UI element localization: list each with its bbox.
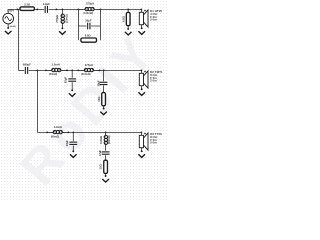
svg-text:(50mΩ): (50mΩ)	[49, 73, 57, 76]
svg-text:6.8mH: 6.8mH	[99, 136, 103, 144]
svg-text:(110mΩ): (110mΩ)	[83, 12, 93, 15]
svg-text:6.8Ω: 6.8Ω	[85, 33, 92, 37]
svg-text:2.2Ω: 2.2Ω	[24, 3, 31, 7]
svg-text:680µF: 680µF	[23, 63, 31, 67]
svg-text:(4mΩ): (4mΩ)	[10, 25, 16, 28]
svg-text:2 0m: 2 0m	[150, 79, 157, 83]
svg-text:39µF: 39µF	[85, 19, 92, 23]
svg-text:2.83V: 2.83V	[7, 8, 14, 12]
svg-text:(90mΩ): (90mΩ)	[51, 135, 59, 138]
svg-text:375µH: 375µH	[85, 63, 93, 67]
svg-text:2 0m: 2 0m	[150, 18, 157, 22]
svg-text:(60mΩ): (60mΩ)	[108, 135, 111, 144]
svg-text:3.9µF: 3.9µF	[43, 2, 50, 6]
svg-text:(33mΩ): (33mΩ)	[65, 14, 68, 23]
svg-text:82µF: 82µF	[63, 77, 67, 84]
svg-text:39µF: 39µF	[96, 80, 100, 87]
svg-text:1.2mH: 1.2mH	[51, 63, 59, 67]
svg-text:15Ω: 15Ω	[98, 163, 102, 169]
svg-text:10Ω: 10Ω	[97, 96, 101, 102]
svg-text:6.8Ω: 6.8Ω	[121, 15, 125, 22]
svg-text:47µF: 47µF	[98, 150, 102, 157]
svg-text:270µH: 270µH	[55, 15, 59, 23]
svg-text:33µF: 33µF	[65, 140, 69, 147]
svg-text:2 0m: 2 0m	[150, 141, 157, 145]
svg-text:(210mΩ): (210mΩ)	[81, 73, 91, 76]
svg-text:375µH: 375µH	[86, 2, 94, 6]
svg-text:3.9mH: 3.9mH	[54, 125, 62, 129]
